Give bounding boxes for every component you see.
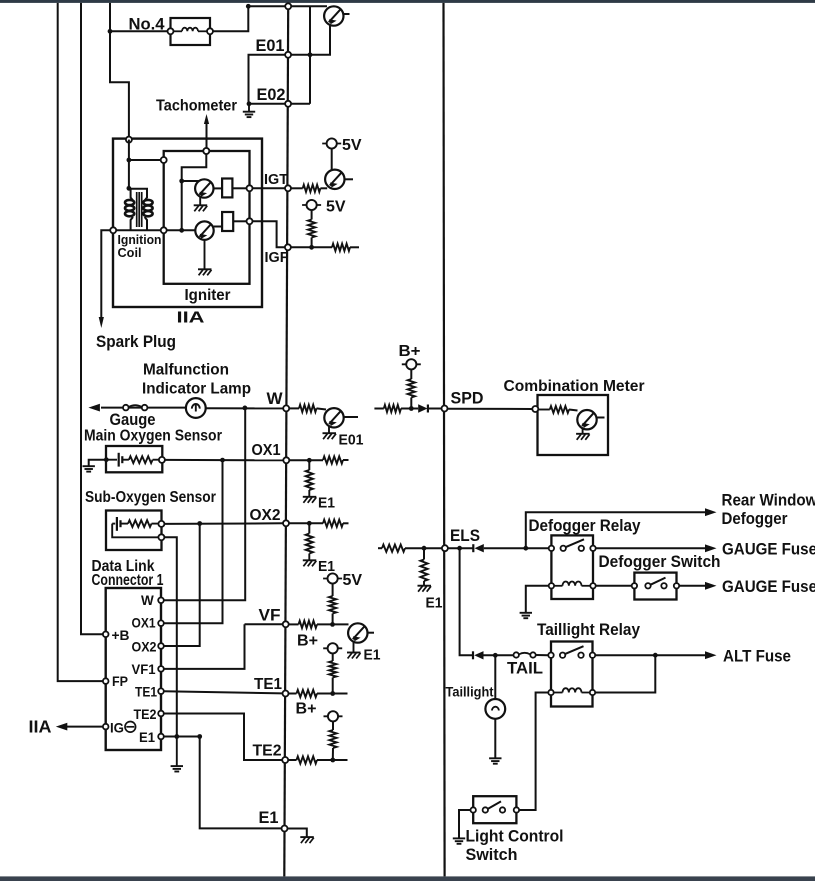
wire top net to transistor base	[248, 5, 327, 7]
wire defogger coil to switch	[596, 585, 632, 587]
label Connector 1	[92, 572, 164, 589]
node tachometer tap (redraw)	[203, 148, 209, 154]
node E01 terminal	[285, 52, 291, 58]
label Igniter	[185, 287, 231, 304]
wire E1 ground stem	[176, 737, 178, 766]
wire B+ to SPD resistor	[410, 369, 412, 379]
box Igniter	[164, 151, 250, 284]
svg-text:Rear Window: Rear Window	[722, 490, 815, 509]
label B+ (SPD)	[399, 343, 421, 360]
relay coil (defogger)	[549, 582, 596, 589]
junction coil feed tap1	[126, 158, 131, 163]
wire TAIL to bulb	[494, 655, 496, 699]
box IIA distributor	[113, 139, 262, 307]
wire E01 row	[249, 55, 311, 104]
svg-text:IG: IG	[110, 720, 124, 735]
node DLC FP terminal	[103, 678, 109, 684]
svg-text:TE2: TE2	[134, 707, 157, 722]
wire ELS divider to ground	[423, 581, 425, 585]
resistor SPD series	[384, 405, 401, 412]
cell main O2 sensor	[106, 453, 129, 467]
label GAUGE Fuse 1	[722, 539, 815, 558]
svg-text:Igniter: Igniter	[185, 287, 231, 304]
svg-text:Switch: Switch	[466, 846, 518, 864]
label 5V (IGF)	[326, 199, 346, 216]
wire ELS left stub	[378, 547, 382, 549]
ground DLC E1	[171, 766, 183, 771]
wire coil secondary to spark plug	[99, 230, 196, 328]
ground E1 (ELS)	[418, 586, 432, 592]
wire IGF row right	[291, 246, 332, 248]
wire E02 row	[249, 103, 311, 105]
wire 5V to pullup resistor	[311, 210, 313, 219]
svg-text:Defogger Relay: Defogger Relay	[529, 517, 642, 535]
wire Q5 emitter to E01 net	[310, 25, 330, 55]
fuse No.4 right terminal	[207, 28, 213, 34]
wire W net to gauge arrow	[88, 404, 186, 412]
label Defogger Relay	[529, 517, 642, 535]
label DLC W	[141, 593, 154, 608]
ground Q7	[576, 434, 590, 440]
svg-text:IGT: IGT	[264, 172, 288, 188]
wire OX2 net	[164, 522, 283, 525]
junction E01/branch	[308, 52, 313, 57]
svg-text:E01: E01	[256, 36, 285, 55]
node DLC TE2 terminal	[158, 711, 164, 717]
label E1 (OX1)	[318, 496, 335, 512]
junction defogger output tap	[523, 546, 528, 551]
label IGT	[264, 172, 288, 188]
wire TE2 right1	[288, 759, 296, 761]
power B+ (SPD)	[402, 359, 421, 369]
ground E1 (ECU)	[300, 837, 314, 843]
node ECU IGT terminal	[285, 185, 291, 191]
node ECU IGF terminal	[285, 244, 291, 250]
wire OX2 to divider resistor	[308, 523, 310, 533]
relay contact (defogger)	[549, 539, 596, 551]
svg-text:B+: B+	[399, 343, 421, 360]
power 5V (VF)	[323, 573, 342, 583]
wire diode to TAIL connector	[484, 654, 514, 656]
wire resistor to Q4	[317, 408, 327, 409]
wire OX2 right	[289, 522, 323, 524]
resistor VF pullup	[329, 596, 336, 614]
node igniter IGT terminal	[247, 185, 253, 191]
wire Q1 base	[182, 180, 199, 182]
node sub O2 output terminal	[158, 521, 164, 527]
junction OX1 divider	[307, 458, 312, 463]
svg-text:E1: E1	[259, 808, 279, 827]
ignition coil (transformer)	[125, 189, 153, 230]
resistor OX1 divider	[306, 470, 313, 490]
svg-text:B+: B+	[296, 701, 317, 718]
wire fuse right lead up to top net	[213, 6, 248, 31]
wire lamp to ECU W	[206, 407, 284, 409]
transistor Q7 collector stub	[597, 417, 605, 419]
resistor TE2 pullup	[329, 730, 336, 748]
box taillight relay	[551, 642, 593, 707]
resistor OX2 divider	[306, 534, 313, 554]
label OX1	[252, 442, 281, 459]
label TE2	[253, 743, 282, 760]
box combination meter	[538, 395, 609, 455]
transistor Q6 collector stub	[368, 632, 374, 634]
svg-text:Spark Plug: Spark Plug	[96, 333, 176, 351]
wire W to base resistor	[289, 407, 299, 409]
bottom page border bar	[0, 876, 815, 881]
label DLC TE2	[134, 707, 157, 722]
wire heater to terminal	[153, 459, 159, 461]
label DLC +B	[112, 628, 130, 643]
wire DLC TE1 link	[164, 691, 283, 693]
label DLC OX2	[132, 640, 157, 655]
ground main O2 sensor	[83, 466, 95, 471]
wire SPD left stub	[374, 408, 383, 410]
lamp taillight bulb	[485, 699, 505, 719]
fuse No.4 body	[171, 18, 211, 45]
node IIA top feed	[126, 137, 132, 143]
label GAUGE Fuse 2	[722, 577, 815, 596]
wire TE1 right2	[317, 693, 348, 695]
ground E1 (OX1)	[303, 497, 317, 503]
wire VF to Q6	[317, 623, 349, 625]
junction ELS divider	[422, 546, 427, 551]
resistor OX1 series	[323, 456, 343, 463]
junction fuse lead / top net	[246, 4, 251, 9]
junction igniter Q1 base tap	[179, 179, 184, 184]
transistor Q1 (igniter upper)	[195, 179, 213, 197]
svg-text:IIA: IIA	[177, 310, 205, 327]
label ALT Fuse	[723, 646, 791, 665]
wire driver R2 to IGF terminal	[233, 220, 246, 222]
wire B+ to TE2 resistor	[332, 721, 334, 730]
svg-text:Combination Meter: Combination Meter	[504, 378, 645, 395]
wire driver R1 to IGT terminal	[232, 187, 246, 189]
wire divider to ground	[308, 490, 310, 496]
switch contact (light control)	[471, 801, 520, 812]
wire harness vertical bus (body)	[444, 3, 445, 877]
transistor Q3 collector stub	[345, 178, 354, 180]
svg-text:Defogger: Defogger	[722, 509, 788, 528]
node meter SPD terminal	[532, 406, 538, 412]
junction ALT feed	[653, 653, 658, 658]
node ECU VF terminal	[283, 621, 289, 627]
connector in TAIL lead	[514, 652, 536, 657]
cell sub O2 sensor	[112, 517, 128, 531]
power B+ (TE2)	[324, 711, 343, 721]
switch contact (defogger switch)	[632, 578, 680, 589]
junction TE1 pullup	[330, 691, 335, 696]
wire OX1 net	[165, 459, 283, 461]
wire defogger coil to ground	[526, 586, 549, 613]
transistor Q6 (VF driver)	[348, 623, 367, 642]
wire branch x=310 top to E02	[309, 6, 311, 104]
wire TE2 right2	[317, 759, 348, 761]
box defogger switch	[634, 573, 676, 600]
svg-text:Light Control: Light Control	[466, 827, 564, 845]
svg-text:GAUGE Fuse: GAUGE Fuse	[722, 539, 815, 558]
box main oxygen sensor	[106, 446, 162, 472]
junction DLC E1 riser	[197, 734, 202, 739]
node ECU top terminal	[285, 3, 291, 9]
label DLC TE1	[135, 685, 157, 700]
label E01	[256, 36, 285, 55]
svg-text:Main Oxygen Sensor: Main Oxygen Sensor	[84, 428, 222, 445]
node igniter terminal B	[161, 157, 167, 163]
diode SPD	[418, 404, 428, 412]
wire sub heater to terminal	[152, 523, 159, 525]
wire OX1 right	[289, 459, 323, 461]
label E01 (Q4)	[339, 433, 364, 449]
label Combination Meter	[504, 378, 645, 395]
svg-text:5V: 5V	[342, 137, 362, 154]
ground at E02	[243, 104, 255, 117]
label E02	[257, 85, 286, 104]
diode defogger to ELS	[473, 544, 484, 552]
wire Q4 emitter	[328, 427, 330, 433]
wire DLC E1 riser to E1 net	[200, 737, 282, 829]
wire OX1 stub	[343, 459, 349, 461]
label TE1	[254, 676, 282, 693]
label DLC E1	[139, 730, 155, 745]
wire ELS to TAIL	[460, 548, 473, 655]
node ECU W terminal	[283, 405, 289, 411]
svg-text:TAIL: TAIL	[507, 659, 543, 677]
wire bus line left-2 (to DLC +B)	[81, 3, 106, 634]
ground E1 (OX2)	[303, 560, 317, 566]
power B+ (TE1)	[323, 643, 342, 653]
wire resistor to Q7	[569, 410, 578, 411]
svg-text:TE1: TE1	[135, 685, 157, 700]
wire bus line left-1 (to DLC FP)	[58, 3, 106, 681]
wire fuse left lead	[110, 30, 168, 32]
wire IGT igniter to ECU	[253, 187, 286, 189]
transistor Q2 (igniter lower)	[195, 221, 213, 239]
node tachometer tap on igniter	[203, 148, 209, 154]
wire IGF igniter to ECU	[253, 221, 285, 247]
node harness ELS terminal	[442, 545, 448, 551]
wire Q2 emitter	[204, 240, 206, 269]
svg-text:OX1: OX1	[132, 616, 156, 631]
wire VF right	[289, 623, 299, 625]
svg-text:Taillight: Taillight	[446, 683, 494, 699]
label Taillight	[446, 683, 494, 699]
wire bulb to ground	[494, 719, 496, 758]
node ECU OX1 terminal	[283, 457, 289, 463]
label IIA	[177, 310, 205, 327]
junction ELS / TAIL branch	[457, 546, 462, 551]
svg-text:Gauge: Gauge	[110, 411, 156, 429]
label TAIL	[507, 659, 543, 677]
junction taillight tap	[493, 653, 498, 658]
wire defogger switch out	[679, 582, 716, 590]
svg-text:5V: 5V	[326, 199, 346, 216]
driver block R2	[222, 212, 233, 231]
box data link connector 1	[106, 588, 161, 750]
wire IG- to IIA arrow	[56, 723, 103, 731]
node ECU TE2 terminal	[282, 757, 288, 763]
label OX2	[250, 507, 281, 524]
svg-text:Sub-Oxygen Sensor: Sub-Oxygen Sensor	[85, 489, 216, 506]
label Spark Plug	[96, 333, 176, 351]
label VF	[259, 606, 281, 625]
wire light switch to ground	[459, 810, 471, 838]
wire DLC W riser	[164, 408, 245, 600]
junction VF pullup	[330, 622, 335, 627]
svg-text:Connector 1: Connector 1	[92, 572, 164, 589]
label Defogger (dest)	[722, 509, 788, 528]
label SPD	[451, 389, 484, 407]
node DLC VF1 terminal	[158, 666, 164, 672]
ground defogger relay	[520, 613, 532, 618]
svg-text:Defogger Switch: Defogger Switch	[599, 553, 721, 571]
fuse No.4 left terminal	[168, 28, 174, 34]
wire OX2 stub	[343, 522, 349, 524]
wire DLC VF1 riser	[164, 624, 245, 669]
node DLC IG- terminal	[103, 724, 109, 730]
label 5V (IGT)	[342, 137, 362, 154]
svg-text:OX2: OX2	[250, 507, 281, 524]
junction DLC E1 / sub-O2 return	[174, 734, 179, 739]
wire E1 to ground	[288, 829, 307, 837]
node ECU TE1 terminal	[283, 691, 289, 697]
wire DLC OX2 riser	[164, 524, 200, 647]
wire IGF stub	[350, 246, 359, 248]
label Coil	[118, 246, 142, 260]
svg-text:GAUGE Fuse: GAUGE Fuse	[722, 577, 815, 596]
svg-text:B+: B+	[297, 633, 318, 650]
label Ignition	[118, 233, 162, 247]
node DLC OX2 terminal	[158, 643, 164, 649]
wire tap1 to igniter	[129, 159, 164, 161]
label Malfunction	[143, 362, 229, 379]
label E1 (ELS)	[426, 596, 443, 612]
svg-text:ALT Fuse: ALT Fuse	[723, 646, 791, 665]
wire DLC E1 link	[164, 736, 200, 738]
svg-text:5V: 5V	[343, 572, 363, 589]
wire taillight coil to ALT feed	[595, 655, 655, 692]
wire Q1 collector to driver	[213, 187, 222, 189]
node igniter terminal C	[161, 227, 167, 233]
resistor ELS divider	[420, 560, 427, 582]
resistor OX2 series	[323, 520, 343, 527]
resistor TE1 pullup	[329, 661, 336, 678]
node igniter IGF terminal	[247, 218, 253, 224]
wire resistor to Q3	[320, 187, 327, 189]
label IGF	[265, 250, 289, 266]
wire VF pullup lead	[332, 614, 334, 625]
label B+ (TE1)	[297, 633, 318, 650]
svg-text:E1: E1	[364, 648, 381, 664]
svg-text:E1: E1	[139, 730, 155, 745]
wire defogger output branch	[526, 508, 717, 548]
ground Q2 emitter	[198, 269, 212, 275]
wire 5V to Q3	[331, 149, 333, 170]
label DLC OX1	[132, 616, 156, 631]
svg-text:TE2: TE2	[253, 743, 282, 760]
node sub O2 return terminal	[158, 534, 164, 540]
resistor W driver base	[299, 405, 317, 412]
wire taillight coil to switch	[520, 693, 549, 811]
label Light Control	[466, 827, 564, 845]
wire Q6 emitter	[353, 642, 355, 652]
relay contact (taillight)	[548, 646, 595, 658]
wire SPD to combination meter	[448, 408, 533, 410]
transistor Q5 (top right)	[324, 6, 343, 25]
label Indicator Lamp	[142, 381, 251, 398]
svg-text:Malfunction: Malfunction	[143, 362, 229, 379]
power 5V (IGF)	[302, 200, 321, 210]
svg-text:IIA: IIA	[29, 716, 52, 736]
transistor Q4 (W driver)	[324, 408, 343, 427]
label DLC VF1	[132, 662, 156, 677]
wire coil feed vertical	[128, 140, 130, 189]
resistor TE1 series	[297, 690, 318, 697]
svg-text:E01: E01	[339, 433, 364, 449]
wire sensor case ground lead	[89, 460, 107, 466]
fuse No.4 element	[174, 28, 208, 32]
wire OX1 to divider resistor	[308, 460, 310, 470]
svg-text:Ignition: Ignition	[118, 233, 162, 247]
wire DLC OX1 riser	[164, 460, 223, 623]
ground E01 (Q4)	[323, 433, 337, 439]
wire Q2 collector to driver	[214, 226, 223, 228]
driver block R1	[222, 179, 232, 198]
junction W / DLC riser	[243, 406, 248, 411]
box sub oxygen sensor	[106, 511, 162, 551]
wire diode to defogger relay	[484, 547, 549, 549]
wire VF left	[245, 623, 283, 625]
wire SPD pullup lead	[410, 398, 412, 409]
svg-text:E02: E02	[257, 85, 286, 104]
label Data Link	[92, 558, 155, 575]
transistor Q3 (IGT driver)	[325, 170, 344, 189]
wire DLC TE2 link	[164, 714, 282, 761]
ground E1 (Q6)	[347, 653, 361, 659]
box light control switch	[473, 796, 516, 823]
top page border bar	[0, 0, 815, 3]
svg-text:Taillight Relay: Taillight Relay	[537, 621, 641, 639]
svg-text:VF: VF	[259, 606, 281, 625]
label Defogger Switch	[599, 553, 721, 571]
wire defogger relay out	[596, 544, 717, 552]
wire ELS to diodes	[448, 547, 473, 549]
wire sub return to E1 riser	[164, 537, 176, 736]
wire igniter internal feed	[182, 151, 207, 230]
svg-text:OX1: OX1	[252, 442, 281, 459]
svg-text:FP: FP	[112, 674, 128, 689]
wire ELS mid	[405, 547, 442, 549]
wire taillight relay out	[595, 651, 716, 659]
wire divider2 to ground	[308, 554, 310, 560]
label Sub-Oxygen Sensor	[85, 489, 216, 506]
label Main Oxygen Sensor	[84, 428, 222, 445]
resistor main O2 heater	[129, 456, 153, 463]
wire TAIL to relay	[536, 654, 549, 656]
wire SPD to harness	[428, 408, 441, 410]
wire ECU main vertical bus	[284, 6, 288, 876]
ground taillight	[489, 758, 501, 763]
resistor IGT base	[303, 185, 321, 192]
transistor Q7 (speed sensor)	[577, 410, 596, 429]
label Taillight Relay	[537, 621, 641, 639]
label Rear Window	[722, 490, 815, 509]
wire TE1 pullup lead	[332, 678, 334, 694]
wire IGT to base resistor	[291, 187, 303, 189]
node DLC TE1 terminal	[158, 688, 164, 694]
resistor ELS series	[382, 545, 405, 552]
svg-text:ELS: ELS	[450, 527, 480, 545]
